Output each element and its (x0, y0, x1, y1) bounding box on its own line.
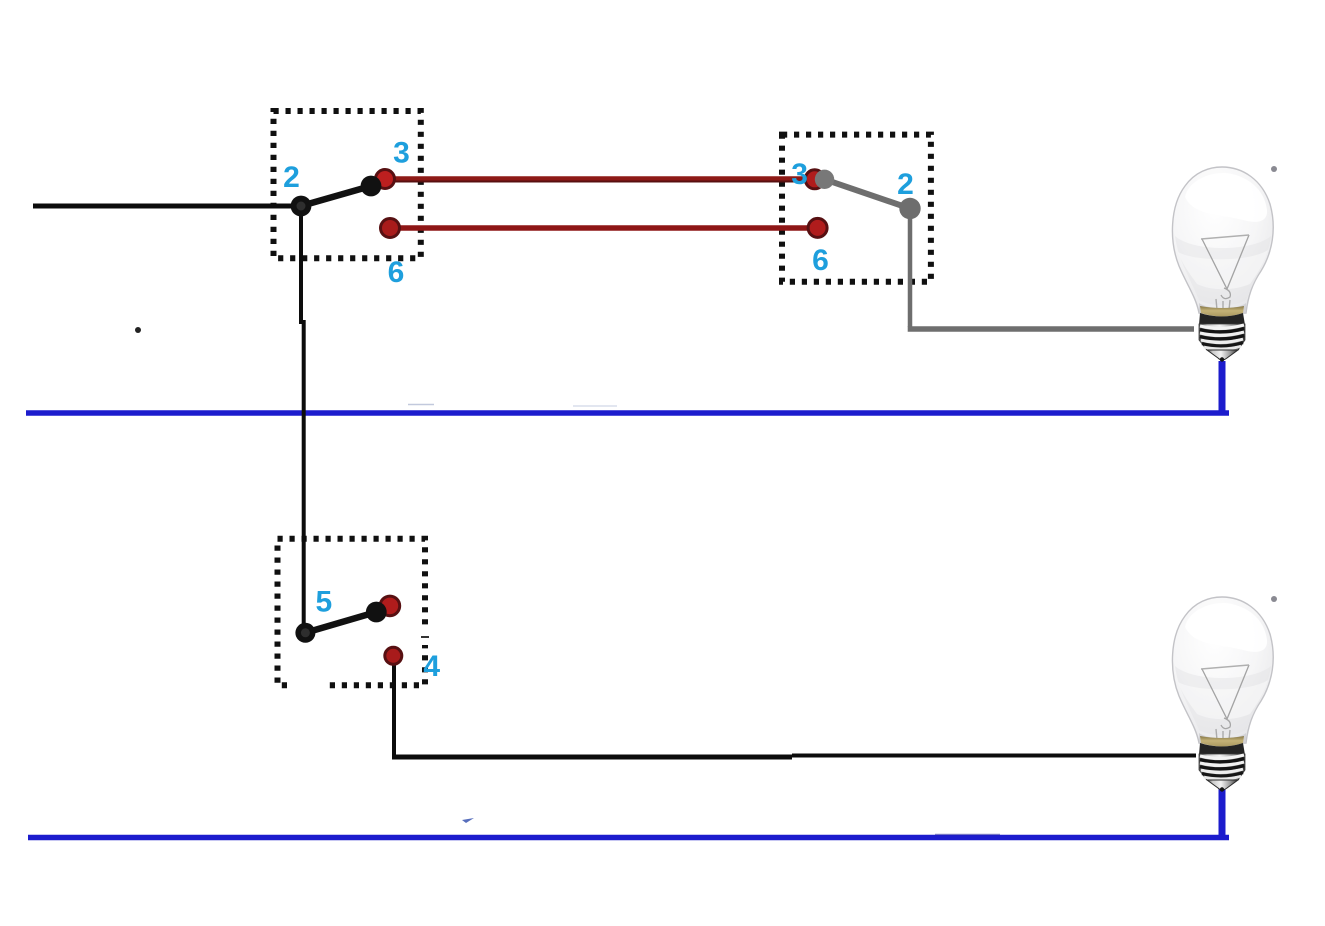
svg-text:3: 3 (791, 158, 808, 191)
svg-text:5: 5 (315, 586, 332, 619)
svg-text:2: 2 (897, 168, 914, 201)
svg-text:6: 6 (812, 244, 829, 277)
svg-text:3: 3 (393, 137, 410, 170)
svg-text:4: 4 (423, 650, 440, 683)
svg-text:6: 6 (388, 256, 405, 289)
svg-text:2: 2 (283, 161, 300, 194)
